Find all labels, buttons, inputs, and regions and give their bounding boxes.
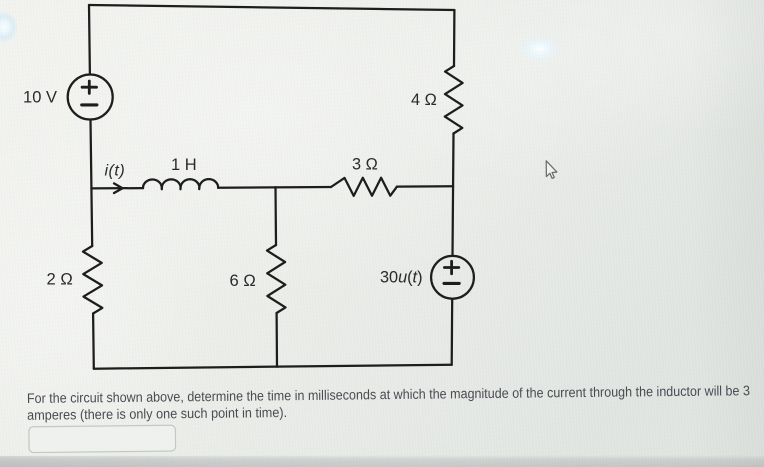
- svg-text:2 Ω: 2 Ω: [47, 270, 73, 289]
- svg-text:30u(t): 30u(t): [380, 269, 423, 287]
- svg-text:i(t): i(t): [105, 163, 126, 180]
- svg-text:amperes (there is only one suc: amperes (there is only one such point in…: [27, 405, 287, 423]
- svg-text:3 Ω: 3 Ω: [352, 156, 378, 174]
- svg-text:1 H: 1 H: [171, 156, 197, 174]
- svg-text:6 Ω: 6 Ω: [230, 271, 256, 290]
- svg-text:10 V: 10 V: [23, 89, 57, 107]
- svg-text:4 Ω: 4 Ω: [411, 91, 437, 109]
